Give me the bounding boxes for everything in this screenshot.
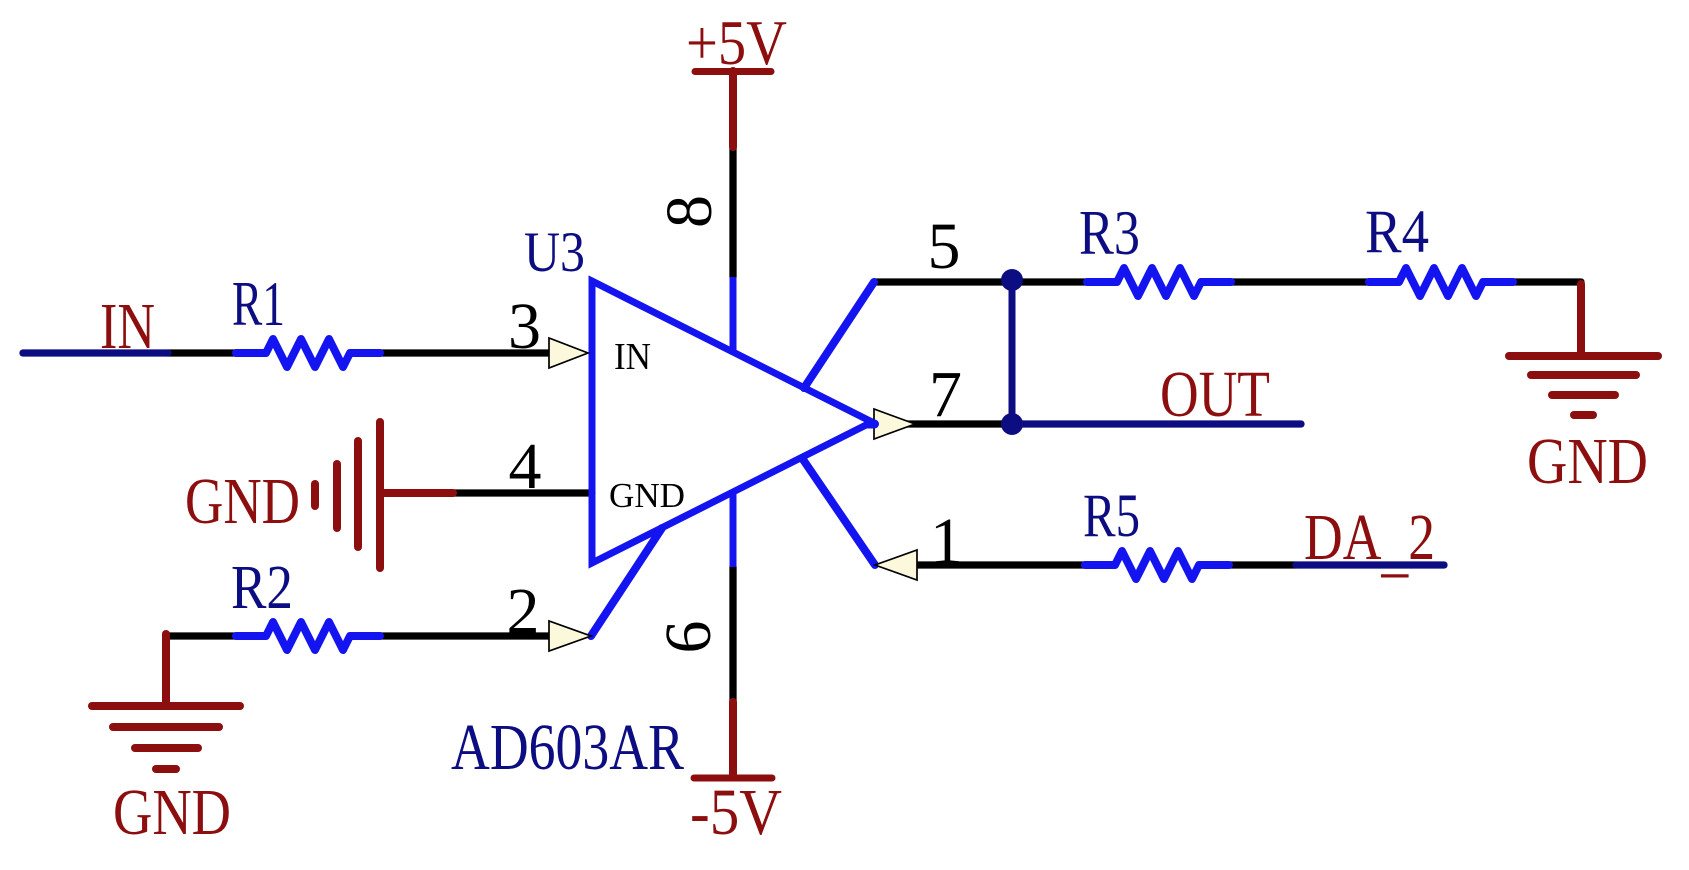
- svg-text:AD603AR: AD603AR: [451, 711, 684, 784]
- svg-text:R5: R5: [1083, 483, 1140, 550]
- svg-text:IN: IN: [614, 336, 651, 378]
- svg-text:+5V: +5V: [686, 7, 787, 78]
- svg-text:GND: GND: [1527, 425, 1648, 498]
- svg-text:GND: GND: [185, 465, 300, 538]
- svg-text:7: 7: [929, 358, 962, 431]
- svg-text:GND: GND: [113, 776, 231, 849]
- svg-text:3: 3: [508, 290, 541, 363]
- svg-text:GND: GND: [609, 476, 685, 515]
- svg-text:U3: U3: [524, 221, 585, 284]
- svg-text:1: 1: [930, 505, 963, 578]
- svg-text:DA_2: DA_2: [1304, 501, 1435, 584]
- svg-text:-5V: -5V: [690, 776, 782, 849]
- svg-text:6: 6: [652, 621, 725, 654]
- svg-text:OUT: OUT: [1160, 358, 1270, 431]
- svg-text:R2: R2: [231, 554, 293, 622]
- svg-text:R1: R1: [232, 269, 285, 339]
- svg-text:5: 5: [928, 210, 961, 283]
- svg-text:8: 8: [653, 195, 726, 228]
- svg-text:R3: R3: [1079, 198, 1140, 268]
- svg-text:4: 4: [509, 430, 542, 503]
- svg-text:IN: IN: [100, 290, 155, 363]
- svg-text:R4: R4: [1365, 199, 1429, 266]
- svg-text:2: 2: [507, 575, 540, 648]
